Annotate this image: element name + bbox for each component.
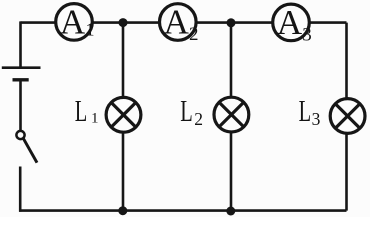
wire battery to switch — [19, 80, 22, 131]
junction dot top 2 — [227, 18, 236, 27]
svg-text:3: 3 — [312, 109, 321, 129]
svg-text:2: 2 — [194, 109, 203, 129]
lamp L2 — [214, 97, 249, 132]
svg-text:A: A — [60, 3, 86, 42]
junction dot top 1 — [119, 18, 128, 27]
wire branch 2 (through L2) — [230, 23, 233, 211]
wire bottom rail — [19, 209, 347, 212]
ammeter A3 — [273, 3, 312, 45]
junction dot bottom 2 — [226, 207, 235, 216]
wire lower left rail (below switch) — [19, 167, 22, 212]
svg-text:L: L — [299, 93, 312, 128]
battery (cell) — [2, 68, 41, 80]
switch (open) — [16, 131, 37, 163]
label L2 — [180, 93, 203, 129]
label L3 — [299, 93, 321, 129]
junction dot bottom 1 — [118, 206, 127, 215]
svg-text:1: 1 — [91, 110, 99, 126]
lamp L3 — [330, 99, 365, 134]
svg-text:2: 2 — [189, 24, 199, 45]
wire left rail upper (to battery) — [19, 21, 22, 67]
label L1 — [75, 93, 99, 128]
wire top rail — [21, 21, 347, 24]
svg-text:A: A — [164, 3, 190, 42]
svg-text:L: L — [180, 93, 193, 128]
wire branch 1 (through L1) — [122, 23, 125, 211]
ammeter A1 — [56, 3, 95, 42]
svg-text:3: 3 — [302, 24, 312, 45]
svg-text:1: 1 — [86, 20, 95, 40]
svg-text:A: A — [277, 3, 303, 42]
svg-text:L: L — [75, 93, 88, 128]
wire right rail — [345, 23, 348, 211]
lamp L1 — [106, 97, 141, 132]
ammeter A2 — [160, 3, 199, 45]
